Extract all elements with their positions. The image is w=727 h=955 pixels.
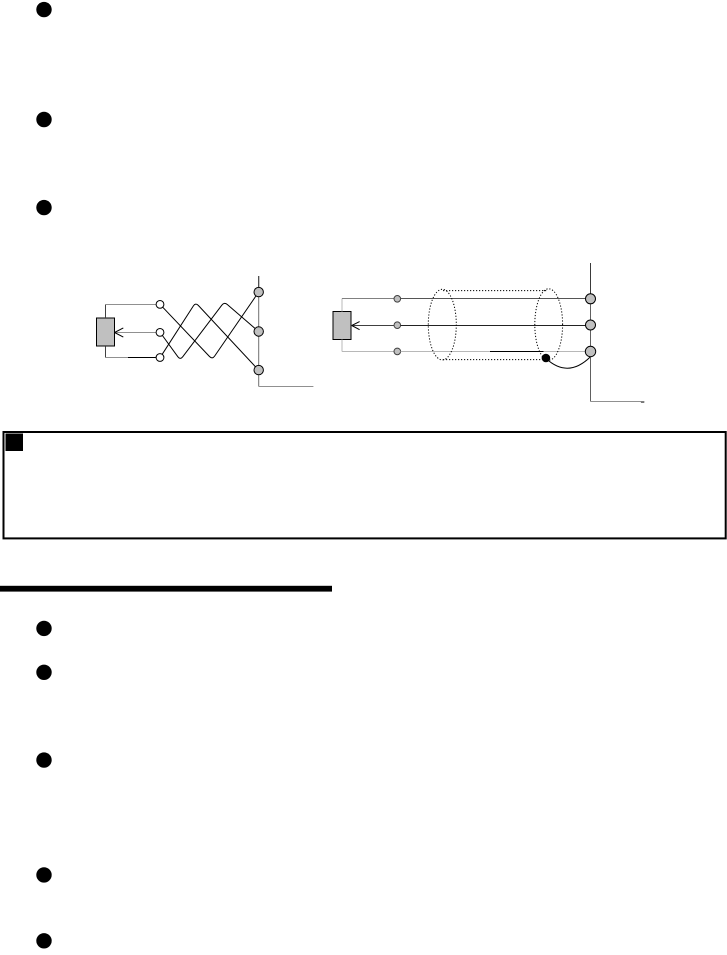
terminal A3 (open circle) xyxy=(156,354,164,362)
bullet 8 xyxy=(36,933,51,948)
terminal A2 (open circle) xyxy=(156,329,164,337)
shield cylinder bottom edge xyxy=(443,359,542,361)
connector block J1 (left diagram) xyxy=(97,318,115,346)
shield cylinder right ellipse xyxy=(535,289,563,360)
connector block J2 (right diagram) xyxy=(333,312,351,340)
bullet 3 xyxy=(36,200,51,215)
arrowhead into J2 xyxy=(352,322,360,330)
bullet 5 xyxy=(36,665,51,680)
node C1 (gray) xyxy=(394,296,401,303)
bullet 4 xyxy=(36,621,51,636)
shield cylinder left ellipse xyxy=(428,289,456,360)
wire: J2 bottom to node C3 xyxy=(341,340,343,352)
twisted wire 3: A3 to B3 xyxy=(162,304,255,367)
terminal D3 (gray) xyxy=(585,346,595,356)
twisted wire 1: A1 to B1 xyxy=(163,296,256,358)
bullet 7 xyxy=(36,867,51,882)
arrowhead into J1 xyxy=(115,328,124,337)
bullet 1 xyxy=(36,2,51,17)
node C2 (gray) xyxy=(394,322,401,329)
left bus bottom wire xyxy=(259,386,314,388)
left bus vertical wire upper dark part xyxy=(258,276,260,292)
right bus vertical wire xyxy=(590,263,592,402)
terminal D2 (gray) xyxy=(586,320,596,330)
node C3 (gray) xyxy=(394,348,401,355)
bullet 2 xyxy=(36,112,51,127)
note box xyxy=(4,432,726,538)
shield connection dot xyxy=(542,354,551,363)
wire: shield lead segment xyxy=(490,351,544,353)
terminal B2 (gray) xyxy=(254,327,263,336)
shield drain wire arc to D3 xyxy=(546,357,590,369)
terminal A1 (open circle) xyxy=(156,301,164,309)
terminal B3 (gray) xyxy=(254,365,263,374)
right bus vertical wire upper dark part xyxy=(590,263,592,299)
wire: C2 to D2 xyxy=(401,325,586,327)
wire: J1 top to terminal A1 xyxy=(105,305,107,319)
terminal B1 (gray) xyxy=(254,287,263,296)
wire: C1 to D1 xyxy=(401,298,586,300)
wire: J1 middle to terminal A2 xyxy=(115,332,156,334)
note marker square xyxy=(6,434,24,452)
left bus vertical wire xyxy=(258,276,260,387)
bullet 6 xyxy=(36,752,51,767)
wire: J1 bottom to terminal A3 xyxy=(105,346,107,357)
section heading rule xyxy=(0,586,332,592)
right bus bottom wire xyxy=(591,401,645,403)
terminal D1 (gray) xyxy=(586,294,596,304)
shield cylinder top edge xyxy=(443,290,548,292)
wire: J2 top to node C1 xyxy=(341,299,343,312)
right bus bottom wire end tick xyxy=(641,401,644,403)
wire: J2 middle to node C2 xyxy=(352,325,394,327)
wire: C3 to D3 xyxy=(401,351,586,353)
twisted wire 2: A2 to B2 xyxy=(162,303,255,358)
